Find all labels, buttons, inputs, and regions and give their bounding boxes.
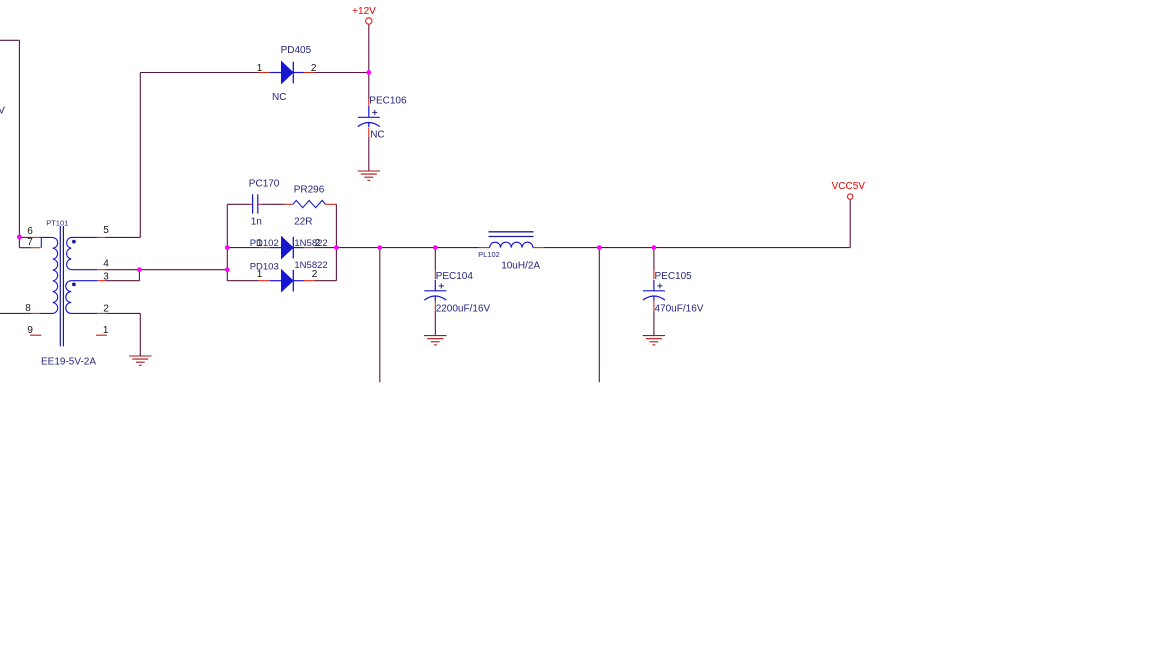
- svg-text:1n: 1n: [251, 216, 262, 227]
- svg-text:PD405: PD405: [281, 45, 312, 56]
- svg-text:PR296: PR296: [294, 185, 325, 196]
- svg-text:2: 2: [315, 238, 321, 249]
- svg-text:1: 1: [257, 238, 263, 249]
- svg-text:6: 6: [27, 226, 33, 237]
- svg-text:4: 4: [103, 259, 109, 270]
- svg-text:3: 3: [103, 272, 109, 283]
- svg-text:1: 1: [103, 325, 109, 336]
- svg-text:+12V: +12V: [352, 6, 376, 17]
- svg-text:NC: NC: [370, 130, 384, 141]
- svg-text:PC170: PC170: [249, 179, 280, 190]
- svg-text:EE19-5V-2A: EE19-5V-2A: [41, 356, 96, 367]
- svg-text:PT101: PT101: [46, 218, 68, 227]
- svg-text:470uF/16V: 470uF/16V: [655, 304, 704, 315]
- svg-text:2: 2: [311, 63, 317, 74]
- svg-text:8: 8: [25, 303, 31, 314]
- svg-text:5: 5: [103, 225, 109, 236]
- svg-text:22R: 22R: [294, 216, 312, 227]
- svg-text:2200uF/16V: 2200uF/16V: [436, 304, 491, 315]
- svg-text:PD102: PD102: [250, 238, 279, 249]
- svg-text:NC: NC: [272, 92, 286, 103]
- svg-text:7: 7: [27, 237, 33, 248]
- svg-text:PL102: PL102: [478, 250, 500, 259]
- svg-text:VCC5V: VCC5V: [832, 181, 866, 192]
- svg-text:2: 2: [312, 269, 318, 280]
- svg-text:1: 1: [257, 63, 263, 74]
- svg-text:1: 1: [257, 269, 263, 280]
- svg-text:V: V: [0, 106, 5, 117]
- svg-text:PD103: PD103: [250, 262, 279, 273]
- svg-text:PEC104: PEC104: [436, 271, 474, 282]
- svg-text:9: 9: [27, 325, 33, 336]
- svg-text:1N5822: 1N5822: [294, 238, 327, 249]
- svg-text:PEC105: PEC105: [655, 271, 693, 282]
- svg-text:10uH/2A: 10uH/2A: [501, 260, 540, 271]
- svg-text:2: 2: [103, 304, 109, 315]
- svg-text:PEC106: PEC106: [369, 96, 407, 107]
